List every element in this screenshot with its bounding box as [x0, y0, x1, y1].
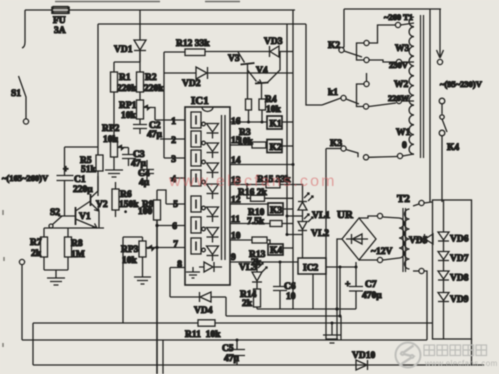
- switch K4: [439, 98, 459, 202]
- svg-text:UR: UR: [337, 209, 354, 221]
- wire IC2 output row: [326, 266, 356, 268]
- wire K3 common drop: [325, 149, 327, 341]
- wire right edge return: [471, 339, 473, 365]
- pin 4 wire: [170, 177, 185, 179]
- svg-text:VD10: VD10: [352, 351, 375, 361]
- diode chain box: [433, 200, 472, 339]
- wire UR bottom to IC2 line: [355, 262, 357, 267]
- svg-text:R1: R1: [119, 73, 131, 83]
- internal bus: [222, 115, 226, 260]
- wire R1 to RP2: [113, 92, 115, 138]
- svg-text:R12 33k: R12 33k: [176, 39, 210, 49]
- wire inner top rail: [98, 23, 306, 25]
- svg-text:RP1: RP1: [119, 101, 137, 111]
- wire left inner rail: [97, 24, 99, 155]
- svg-text:www.elecfans.com: www.elecfans.com: [168, 173, 337, 190]
- svg-text:VD4: VD4: [194, 306, 213, 316]
- svg-text:K2: K2: [328, 41, 340, 51]
- internal output diode: [199, 262, 222, 272]
- svg-text:K1: K1: [270, 120, 282, 130]
- wire RP1 wiper to pin1: [150, 108, 155, 121]
- svg-text:VD5: VD5: [409, 236, 428, 246]
- wire divider node: [44, 227, 104, 229]
- resistor R12 33k: [176, 39, 210, 56]
- capacitor C7 470u: [345, 267, 382, 309]
- LED VL3: [239, 261, 267, 283]
- diode VD9: [438, 293, 469, 306]
- wire R1 branch: [114, 51, 140, 72]
- pin 1 wire: [155, 119, 185, 121]
- svg-text:R4: R4: [265, 95, 277, 105]
- svg-text:10k: 10k: [266, 105, 282, 115]
- svg-text:~12V: ~12V: [371, 247, 392, 257]
- diode VD2: [164, 67, 293, 89]
- wire R12 branch: [164, 51, 185, 53]
- wire pin12 row: [230, 203, 268, 205]
- resistor R11 10k: [185, 320, 221, 340]
- wire R9 bottom column: [156, 220, 158, 374]
- svg-text:W3: W3: [395, 44, 410, 54]
- svg-text:R11 10k: R11 10k: [185, 330, 221, 340]
- svg-text:C5: C5: [222, 344, 234, 354]
- svg-text:51k: 51k: [81, 165, 97, 175]
- wire K3 to 0 tap: [369, 156, 398, 159]
- svg-text:10: 10: [286, 292, 296, 302]
- transformer T1: [384, 12, 424, 159]
- svg-text:3A: 3A: [54, 26, 66, 36]
- wire left AC lead: [24, 10, 26, 42]
- watermark logo: [396, 343, 421, 368]
- wire UR top out: [359, 216, 377, 218]
- svg-text:K4: K4: [447, 143, 459, 153]
- wire T2 secondary bottom return: [424, 271, 427, 340]
- wire UR bottom out: [359, 259, 377, 261]
- svg-text:C7: C7: [365, 280, 377, 290]
- capacitor C2 47u: [133, 119, 163, 140]
- svg-text:·: ·: [124, 208, 127, 218]
- scan artifact top lines: [55, 1, 240, 3]
- diode VD5: [409, 234, 433, 246]
- driver cell row 1: [191, 112, 205, 128]
- resistor R10 7.5k: [247, 208, 293, 227]
- internal diode row 3: [207, 163, 219, 178]
- wire VD4 to bus: [225, 297, 227, 316]
- resistor R8 1M: [65, 228, 85, 270]
- wire K2 NC to 230V tap: [369, 60, 396, 62]
- wire top right bus: [344, 8, 441, 10]
- svg-text:220μ: 220μ: [73, 185, 93, 195]
- switch S2: [44, 208, 62, 237]
- svg-text:2: 2: [171, 136, 176, 146]
- wire pin11 row: [230, 223, 270, 225]
- svg-text:RP3: RP3: [121, 245, 139, 255]
- ground below RP3: [134, 257, 151, 284]
- transformer T2: [383, 193, 424, 274]
- svg-text:+: +: [63, 165, 68, 175]
- resistor R3 10k: [238, 128, 267, 148]
- svg-text:K4: K4: [270, 246, 282, 256]
- svg-text:VL1: VL1: [312, 211, 330, 221]
- wire pin15 row: [230, 144, 252, 146]
- svg-text:C1: C1: [74, 175, 86, 185]
- diode VD8: [438, 271, 469, 284]
- svg-text:VL3: VL3: [239, 263, 257, 273]
- transistor V1: [58, 201, 97, 228]
- diode VD7: [438, 252, 469, 265]
- wire relay bus: [286, 24, 288, 234]
- svg-text:2k: 2k: [242, 299, 253, 309]
- fuse FU 3A: [52, 7, 69, 37]
- svg-text:R2: R2: [145, 73, 157, 83]
- bridge rectifier UR: [337, 209, 392, 260]
- op-amp U2 IC2: [298, 258, 326, 274]
- svg-text:V4: V4: [256, 66, 268, 76]
- pin 7 wire: [147, 247, 186, 249]
- svg-text:FU: FU: [53, 16, 66, 26]
- wire R5 to V2 collector: [97, 171, 99, 196]
- node pin6 junction: [155, 224, 158, 227]
- svg-text:IC1: IC1: [191, 95, 209, 107]
- resistor on V3 emitter: [246, 99, 252, 122]
- resistor R1 220k: [111, 72, 138, 94]
- wire inner box right edge: [306, 24, 322, 105]
- node pin7 junction: [155, 246, 158, 249]
- resistor R7 2k: [30, 237, 48, 270]
- svg-text:47μ: 47μ: [131, 159, 147, 169]
- svg-text:VD1: VD1: [114, 45, 133, 55]
- svg-text:230V: 230V: [389, 60, 409, 70]
- wire bus y323: [33, 322, 432, 324]
- wire VL bus stubs: [287, 216, 303, 235]
- svg-text:~(165~260)V: ~(165~260)V: [2, 173, 49, 183]
- svg-text:IC2: IC2: [303, 264, 319, 274]
- pin 3 wire: [164, 157, 185, 159]
- potentiometer RP1 10k: [119, 100, 150, 121]
- diode VD4: [170, 292, 226, 316]
- svg-text:S1: S1: [11, 89, 21, 99]
- wire T2 secondary top to box: [424, 202, 432, 203]
- pin 5 wire: [166, 203, 185, 205]
- diode VD3: [264, 37, 293, 57]
- wire R12 to V3 base and VD3 row: [205, 51, 269, 53]
- wire T1 right riser: [429, 9, 431, 202]
- svg-text:~(95~230)V: ~(95~230)V: [440, 79, 483, 89]
- diode VD10: [352, 351, 375, 370]
- resistor R2 220k: [137, 72, 165, 94]
- wire lower input lead: [21, 265, 23, 340]
- wire top AC bus: [25, 9, 295, 11]
- internal diode row 1: [207, 124, 219, 139]
- ground mid bottom: [323, 322, 341, 344]
- svg-text:10k: 10k: [122, 256, 138, 266]
- wire K1 feed row: [322, 98, 341, 105]
- resistor R9 100: [138, 190, 161, 220]
- wire K1 to 220W tap: [369, 103, 396, 107]
- transistor V2: [91, 176, 108, 211]
- svg-text:V3: V3: [228, 54, 240, 64]
- resistor R16 2k: [238, 183, 293, 201]
- LED VL2: [298, 214, 329, 258]
- driver cell row 2: [191, 131, 205, 147]
- diode VD6: [438, 232, 469, 245]
- driver cell row 4: [191, 170, 205, 186]
- relay coil K1: [267, 116, 293, 130]
- LED VL1: [298, 193, 330, 222]
- wire pin13 row: [230, 184, 266, 186]
- internal diode row 2: [207, 143, 219, 158]
- svg-text:10k: 10k: [238, 137, 254, 147]
- wire pin9 row: [230, 261, 298, 263]
- svg-text:VD3: VD3: [264, 37, 283, 47]
- resistor R13 2k: [249, 237, 270, 268]
- ground below R7 R8: [44, 270, 68, 285]
- ground below RP2: [105, 157, 123, 177]
- svg-text:K3: K3: [330, 139, 342, 149]
- watermark text: [424, 345, 487, 356]
- potentiometer RP2 10k: [102, 124, 124, 157]
- svg-text:S2: S2: [50, 208, 60, 218]
- svg-text:V1: V1: [79, 212, 91, 222]
- wire pin10 row: [230, 239, 252, 241]
- capacitor C6 10: [273, 261, 296, 310]
- internal ground: [186, 267, 200, 278]
- driver cell row 6: [191, 217, 205, 233]
- svg-text:W2: W2: [394, 80, 409, 90]
- svg-text:V2: V2: [96, 200, 108, 210]
- svg-text:T2: T2: [397, 193, 410, 205]
- svg-text:R7: R7: [30, 238, 42, 248]
- svg-text:VD9: VD9: [450, 295, 469, 305]
- svg-text:~260 T1: ~260 T1: [384, 12, 413, 22]
- wire R2 to RP1: [139, 92, 141, 100]
- svg-text:R6: R6: [120, 190, 132, 200]
- pin 8 wire: [170, 268, 185, 298]
- svg-text:VD8: VD8: [450, 274, 469, 284]
- pin 6 wire: [157, 225, 185, 227]
- svg-text:C6: C6: [284, 282, 296, 292]
- node input terminal lower: [19, 259, 24, 264]
- svg-text:150k: 150k: [119, 200, 139, 210]
- svg-text:100: 100: [138, 207, 153, 217]
- resistor R4 10k: [259, 95, 282, 122]
- wire VD1 branch from top bus: [139, 10, 141, 40]
- switch K2: [328, 40, 369, 62]
- svg-text:47μ: 47μ: [224, 354, 240, 364]
- svg-text:220W: 220W: [388, 93, 410, 103]
- svg-text:W1: W1: [396, 128, 411, 138]
- relay coil K4: [268, 244, 293, 256]
- driver cell row 3: [191, 150, 205, 166]
- svg-text:2k: 2k: [31, 249, 42, 259]
- relay coil K3: [268, 203, 293, 216]
- svg-text:220k: 220k: [144, 84, 164, 94]
- op-amp U1 IC1 outline: [185, 95, 230, 285]
- svg-text:1M: 1M: [71, 250, 85, 260]
- wire UR left down: [337, 239, 342, 309]
- relay coil K2: [267, 140, 293, 154]
- svg-text:6: 6: [172, 222, 177, 232]
- scan specks left edge: [3, 210, 4, 347]
- driver cell row 7: [191, 238, 205, 254]
- wire mid bus y316: [226, 315, 341, 317]
- wire K2 feed: [342, 9, 344, 48]
- wire IC2 bottom: [312, 274, 314, 309]
- svg-text:VD6: VD6: [450, 235, 469, 245]
- diode VD1: [114, 40, 146, 62]
- svg-text:VD2: VD2: [182, 79, 201, 89]
- resistor R6 150k: [112, 182, 139, 218]
- wire pin14 row: [230, 164, 293, 166]
- wire x337 drop: [336, 309, 338, 340]
- svg-text:3: 3: [171, 155, 176, 165]
- wire C1 top branch: [65, 146, 99, 148]
- switch K3: [326, 139, 369, 160]
- svg-text:220k: 220k: [117, 84, 137, 94]
- capacitor C5 47u: [222, 339, 245, 366]
- svg-text:5: 5: [173, 200, 178, 210]
- svg-text:RP2: RP2: [102, 124, 120, 134]
- wire x341 drop: [340, 316, 342, 340]
- potentiometer RP3 10k: [121, 237, 146, 323]
- svg-text:k1: k1: [328, 88, 338, 98]
- svg-text:7.5k: 7.5k: [247, 217, 265, 227]
- pin 2 wire: [160, 138, 185, 140]
- svg-text:1: 1: [171, 117, 176, 127]
- capacitor C1 220u: [57, 147, 94, 216]
- svg-text:8: 8: [177, 260, 182, 270]
- wire bus bottom y365: [33, 364, 484, 366]
- driver cell row 5: [191, 196, 205, 212]
- svg-text:www.elecfans.com: www.elecfans.com: [424, 359, 498, 368]
- svg-text:K2: K2: [270, 143, 282, 153]
- resistor R15 33k: [257, 175, 303, 193]
- svg-text:VD7: VD7: [450, 254, 469, 264]
- internal diode row 6: [207, 228, 219, 243]
- svg-text:10k: 10k: [103, 135, 119, 145]
- switch S1: [11, 42, 29, 124]
- svg-text:470μ: 470μ: [362, 291, 382, 301]
- wire K2 NO to 260 tap: [369, 25, 395, 43]
- svg-text:4μ: 4μ: [139, 178, 150, 188]
- wire V2 emitter to node: [98, 211, 100, 228]
- svg-text:0: 0: [402, 141, 407, 151]
- svg-text:7: 7: [173, 240, 178, 250]
- wire left bottom edge: [32, 323, 34, 365]
- wire diode chain: [443, 200, 445, 339]
- svg-text:+: +: [345, 280, 350, 290]
- wire supply rail right: [292, 10, 294, 309]
- svg-text:K3: K3: [270, 206, 282, 216]
- wire mid bus y309: [257, 308, 356, 310]
- resistor R14 2k: [240, 282, 261, 309]
- wire VD2 row: [163, 52, 165, 158]
- wire RP3 right column lower: [162, 340, 164, 374]
- capacitor C3 47u: [122, 148, 147, 170]
- wire bus y340: [22, 339, 427, 341]
- resistor R5 51k: [80, 155, 103, 175]
- wire x340 drop: [339, 267, 341, 316]
- node VL junctions: [286, 215, 289, 218]
- wire pin16 row: [230, 121, 267, 123]
- wire R9 to pin5: [157, 190, 166, 204]
- capacitor C4 4u: [138, 160, 154, 188]
- svg-text:10k: 10k: [121, 111, 137, 121]
- svg-text:R8: R8: [71, 239, 83, 249]
- internal diode row 7: [207, 246, 219, 261]
- internal diode row 5: [207, 207, 219, 222]
- transistor V4: [248, 52, 281, 99]
- switch K1: [328, 73, 369, 109]
- output arrow terminal: [437, 9, 444, 65]
- transistor V3: [228, 52, 255, 99]
- internal diode row 4: [207, 184, 219, 199]
